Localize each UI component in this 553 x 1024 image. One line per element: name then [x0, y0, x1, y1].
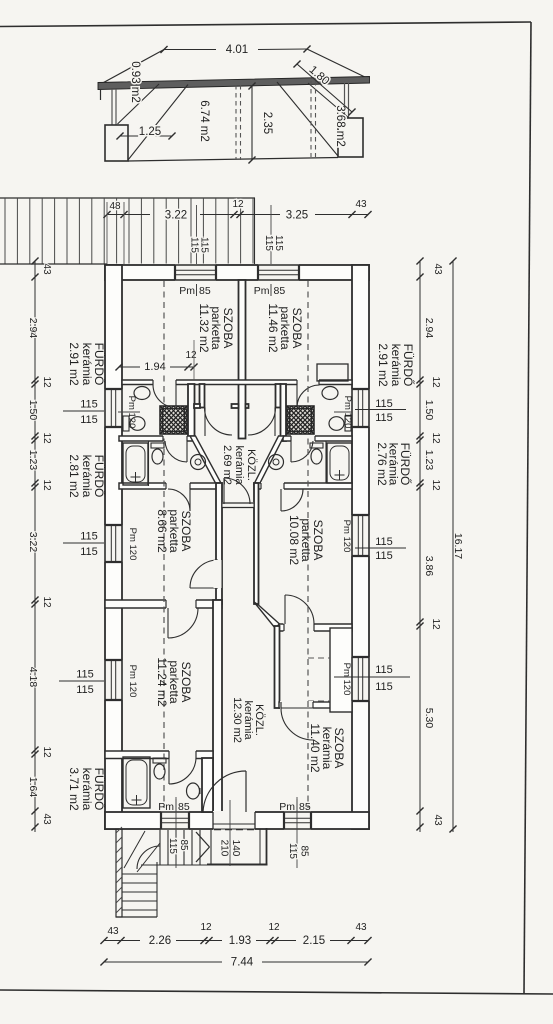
window top wall right Pm85 [258, 264, 299, 281]
svg-text:12: 12 [41, 432, 52, 444]
svg-text:12: 12 [41, 746, 52, 758]
svg-text:6.74 m2: 6.74 m2 [198, 100, 210, 142]
svg-text:11.32 m2: 11.32 m2 [197, 303, 211, 352]
svg-text:85: 85 [178, 839, 189, 851]
right chain2 16.17 line x453 [452, 261, 454, 832]
svg-text:3.86: 3.86 [423, 556, 435, 577]
svg-text:1.23: 1.23 [27, 450, 39, 471]
door arc bath 2.81 L [186, 441, 188, 462]
svg-text:43: 43 [355, 922, 367, 933]
svg-text:Pm 120: Pm 120 [341, 663, 352, 696]
svg-text:kerámia: kerámia [80, 343, 94, 386]
upper terrace band right end line [254, 198, 256, 264]
svg-text:Pm: Pm [179, 285, 195, 297]
svg-text:115: 115 [375, 536, 393, 548]
svg-text:115: 115 [76, 684, 94, 696]
dashed shaft left pair [235, 85, 237, 160]
roof slab (dark bar) [98, 77, 370, 90]
svg-text:115: 115 [167, 838, 178, 854]
svg-text:43: 43 [432, 814, 443, 826]
top chain extension line x107 [106, 202, 108, 264]
svg-text:4.18: 4.18 [27, 667, 39, 688]
entry landing bottom edge [207, 864, 268, 866]
corridor throat right wall [254, 483, 259, 604]
svg-text:1.50: 1.50 [27, 400, 39, 421]
page top border line [0, 22, 531, 27]
section dashed line left x164 [163, 281, 165, 808]
svg-text:11.46 m2: 11.46 m2 [266, 303, 280, 352]
door gap hall wall x213 [214, 560, 222, 588]
stair direction arrow [196, 832, 210, 847]
chamfer wall corridor to hall [254, 602, 280, 628]
svg-text:115: 115 [375, 550, 393, 562]
room 8.66 / room 11.24 divider wall y600 [105, 600, 222, 608]
partition line bath 2.81 L [148, 441, 150, 486]
svg-text:43: 43 [41, 263, 52, 275]
shower tray bath R [287, 406, 314, 434]
svg-text:12: 12 [232, 199, 244, 210]
window bottom wall left Pm85 [161, 811, 189, 830]
svg-text:kerámia: kerámia [233, 445, 245, 485]
svg-text:Pm 120: Pm 120 [127, 665, 138, 698]
svg-text:2.26: 2.26 [149, 935, 171, 947]
upper terrace bottom line left of building [0, 263, 107, 265]
svg-text:12: 12 [41, 479, 52, 491]
svg-text:8.66 m2: 8.66 m2 [155, 509, 169, 553]
door arc bath 2.91 L [153, 385, 176, 408]
window left wall room 8.66 [104, 525, 123, 562]
door arc bath 2.91 R [297, 385, 320, 408]
radiator rect bedroom R [317, 364, 348, 381]
window leader into bath R [334, 411, 352, 413]
door arc left strip [204, 408, 206, 437]
stair winder arc [137, 846, 160, 869]
svg-text:5.30: 5.30 [423, 708, 435, 729]
left strip duct [200, 384, 205, 408]
middle spine wall between bedrooms [239, 280, 246, 439]
svg-text:115: 115 [189, 237, 200, 253]
stair upper flight treads [159, 830, 161, 865]
partition line bath 2.76 R [325, 441, 327, 483]
bottom total dim 7.44 line [104, 961, 222, 963]
svg-text:1.64: 1.64 [27, 777, 39, 798]
svg-text:3.68 m2: 3.68 m2 [334, 105, 346, 147]
svg-text:3.71 m2: 3.71 m2 [67, 767, 81, 811]
svg-text:12: 12 [430, 618, 441, 630]
funnel circle right [269, 455, 284, 470]
stair left cheek wall [116, 829, 122, 917]
door arc room 10.08 bottom [284, 595, 286, 624]
window right wall bath 2.91R [351, 389, 370, 427]
outer wall bottom [105, 812, 369, 829]
svg-text:1.50: 1.50 [423, 400, 435, 421]
right pillar [338, 118, 363, 157]
page bottom border line [0, 990, 553, 994]
door gap bedroomR-bath [297, 379, 319, 386]
window left wall bath 2.91 [104, 389, 123, 427]
svg-text:210: 210 [219, 840, 230, 857]
bathtub bath 3.71 [123, 757, 150, 808]
door gap corridor throat [223, 502, 254, 508]
svg-text:12: 12 [200, 922, 212, 933]
svg-text:2.76 m2: 2.76 m2 [375, 442, 389, 486]
svg-text:2.81 m2: 2.81 m2 [67, 454, 81, 498]
room 10.08 top wall y483 [254, 483, 352, 489]
svg-text:4.01: 4.01 [226, 44, 248, 56]
svg-text:12: 12 [430, 479, 441, 491]
left diagonal brace long [128, 85, 188, 161]
svg-text:kerámia: kerámia [80, 455, 94, 498]
svg-text:16.17: 16.17 [452, 533, 464, 559]
tick 4.01 left [160, 46, 167, 53]
left strip partition spine side piece [232, 404, 239, 408]
outer wall right [352, 265, 369, 829]
door arc room 8.66 entry [189, 489, 191, 511]
funnel circle left [191, 455, 206, 470]
door gap bedroomL-bath [153, 379, 176, 386]
window bottom wall right Pm85 [284, 811, 311, 830]
toilet bath 3.71 [153, 758, 166, 763]
dashed shaft right pair [310, 81, 312, 157]
svg-text:1.25: 1.25 [139, 126, 161, 138]
entry landing right wall line [259, 829, 261, 864]
stair lower flight treads [122, 873, 157, 875]
leader line window bottom left [175, 797, 177, 868]
svg-text:85: 85 [178, 801, 190, 813]
room 8.66 top wall y483 [119, 483, 222, 489]
door arc corridor throat door [224, 478, 250, 504]
wardrobe rect room 11.40 [330, 628, 352, 712]
stair winder diagonals [124, 831, 145, 868]
door arc bath 2.76 R [290, 441, 292, 462]
door gap room 8.66 [166, 482, 190, 490]
funnel left diagonal wall [190, 436, 222, 484]
svg-text:3.25: 3.25 [286, 210, 308, 222]
room 10.08 bottom wall y624 [279, 624, 352, 631]
door gap room 11.24 [166, 599, 196, 609]
svg-text:115: 115 [375, 398, 393, 410]
door gap bath 3.71 [169, 750, 196, 760]
roof section bottom chord [128, 158, 338, 162]
outer wall top [105, 265, 369, 280]
top chain extension line x124 [123, 202, 125, 264]
sink bath 2.91 R [322, 387, 338, 400]
door gap bath2R [291, 435, 315, 442]
dim 2.35 vertical line [251, 86, 253, 160]
roof section: flat top / dim 4.01 line [164, 49, 216, 51]
svg-text:Pm 120: Pm 120 [126, 396, 137, 429]
svg-text:115: 115 [80, 531, 98, 543]
right bath left wall [281, 384, 287, 441]
svg-text:85: 85 [274, 285, 286, 297]
hall right wall x275 [275, 626, 280, 708]
sink bath 2.91 L [134, 387, 150, 400]
door arc room 11.24 entry [167, 608, 169, 638]
corridor throat left wall [216, 483, 222, 604]
svg-text:43: 43 [107, 926, 119, 937]
door arc right strip [274, 408, 276, 437]
svg-text:Pm 120: Pm 120 [341, 520, 352, 553]
window top wall left Pm85 [175, 264, 216, 281]
left dim chain vertical line [34, 261, 36, 832]
svg-text:3.22: 3.22 [165, 210, 187, 222]
funnel right diagonal wall [254, 436, 284, 484]
svg-text:Pm 120: Pm 120 [127, 528, 138, 561]
svg-text:85: 85 [299, 845, 310, 857]
svg-text:10.08 m2: 10.08 m2 [287, 515, 301, 565]
dashed bay line lower [308, 700, 330, 702]
entry threshold dashed line [214, 829, 256, 831]
bath 3.71 right wall [202, 758, 213, 812]
svg-text:115: 115 [375, 412, 393, 424]
bottom chain ticks [100, 937, 107, 944]
toilet bath 2.81 L [151, 443, 164, 448]
right post (double line) [344, 83, 346, 118]
svg-text:115: 115 [199, 237, 210, 253]
svg-text:1.93: 1.93 [229, 935, 251, 947]
right strip partition spine side piece [246, 404, 249, 408]
right diagonal brace short [308, 83, 349, 118]
door gap room 10.08 [261, 482, 284, 490]
dim 1.80 diagonal line [297, 64, 352, 112]
svg-text:3.22: 3.22 [27, 532, 39, 553]
svg-text:Pm: Pm [254, 285, 270, 297]
roof left slope [99, 50, 164, 86]
svg-text:12: 12 [430, 432, 441, 444]
svg-text:85: 85 [299, 801, 311, 813]
toilet bath 2.91 L (horizontal) [123, 416, 129, 431]
window leader right top [270, 205, 272, 281]
svg-text:kerámia: kerámia [389, 344, 403, 387]
page right border line [524, 22, 531, 993]
svg-text:11.24 m2: 11.24 m2 [155, 657, 169, 706]
window right wall room 11.40 [351, 657, 370, 701]
svg-text:1.23: 1.23 [423, 450, 435, 471]
svg-text:115: 115 [263, 235, 274, 251]
door arc room 11.40 entry [281, 707, 313, 709]
left post (double line) [111, 89, 113, 125]
svg-text:115: 115 [80, 546, 98, 558]
svg-text:KÖZL.: KÖZL. [245, 449, 257, 481]
tick 4.01 right [303, 45, 310, 52]
top chain ticks [103, 211, 110, 218]
svg-text:43: 43 [432, 263, 443, 275]
sink bath 3.71 [187, 783, 200, 799]
door arc bath 3.71 [168, 759, 170, 785]
window right wall room 10.08 [351, 515, 370, 556]
svg-text:Pm 120: Pm 120 [342, 396, 353, 429]
window leader left top [196, 205, 198, 281]
slab left fascia stub [100, 89, 102, 100]
svg-text:140: 140 [230, 840, 241, 857]
window left wall room 11.24 [104, 660, 123, 700]
door gap room 10.08 bottom [284, 623, 315, 632]
door gap room 11.40 [280, 701, 313, 709]
svg-text:2.69 m2: 2.69 m2 [221, 445, 233, 485]
dashed bay line upper [308, 657, 330, 659]
hall left wall x213 [213, 600, 222, 812]
svg-text:12: 12 [41, 596, 52, 608]
door arc room 8.66 wall door to hall [190, 587, 218, 589]
window leader into bath L [118, 411, 140, 413]
dim 1.94 room L [119, 366, 140, 368]
bedrooms bottom wall y380 [122, 380, 352, 385]
toilet bath 2.91 R (horizontal) [345, 416, 351, 431]
door gap bath2L [163, 435, 187, 442]
bottom dim chain line y940 [104, 940, 140, 942]
right chain1 ticks [416, 257, 423, 264]
right strip duct [276, 384, 281, 408]
roof right slope [307, 49, 369, 79]
svg-text:2.15: 2.15 [303, 935, 325, 947]
svg-text:2.91 m2: 2.91 m2 [67, 342, 81, 386]
svg-text:115: 115 [375, 664, 393, 676]
svg-text:115: 115 [273, 235, 284, 251]
right dim chain1 vertical line x420 [419, 261, 421, 832]
svg-text:2.94: 2.94 [27, 318, 39, 339]
svg-text:Pm: Pm [158, 801, 174, 813]
left chain ticks [31, 257, 38, 264]
svg-text:1.94: 1.94 [144, 361, 165, 373]
svg-text:115: 115 [375, 681, 393, 693]
svg-text:7.44: 7.44 [231, 957, 254, 969]
svg-text:115: 115 [80, 414, 98, 426]
svg-text:115: 115 [76, 669, 94, 681]
svg-text:2.91 m2: 2.91 m2 [376, 343, 390, 387]
svg-text:2.35: 2.35 [261, 112, 273, 134]
hall/room 11.40 top wall y702 [279, 702, 331, 708]
bathtub bath 2.76 R [327, 443, 352, 483]
entrance door arc [203, 771, 246, 812]
svg-text:0.93 m2: 0.93 m2 [129, 61, 141, 103]
entrance door opening 140/210 [213, 811, 255, 830]
top dim chain line y=214 [107, 214, 150, 216]
svg-text:43: 43 [41, 813, 52, 825]
dim 1.25 line [120, 135, 172, 137]
svg-text:12: 12 [268, 922, 280, 933]
shower tray bath L [160, 406, 187, 434]
right diagonal brace long [277, 82, 338, 156]
svg-text:kerámia: kerámia [80, 768, 94, 811]
room 11.24 bottom wall y751 [105, 751, 213, 759]
door arc room 10.08 entry [280, 489, 282, 511]
leader line entrance [229, 800, 231, 866]
section dashed line right x308 [307, 281, 309, 808]
bathtub bath 2.81 L [123, 443, 148, 485]
svg-text:12: 12 [185, 350, 197, 361]
svg-text:12: 12 [430, 376, 441, 388]
upper terrace hatch lines [4, 198, 6, 264]
svg-text:2.94: 2.94 [423, 318, 435, 339]
leader line window bottom right [296, 797, 298, 868]
left pillar [105, 125, 128, 161]
svg-text:43: 43 [355, 199, 367, 210]
svg-text:11.40 m2: 11.40 m2 [308, 723, 322, 772]
svg-text:12: 12 [41, 376, 52, 388]
svg-text:85: 85 [199, 285, 211, 297]
left bath right wall [188, 384, 195, 440]
toilet bath 2.76 R [310, 443, 323, 448]
left strip partition wall piece [194, 404, 200, 408]
svg-text:12.30 m2: 12.30 m2 [231, 697, 243, 743]
bath row divider wall right y436 [283, 436, 352, 441]
svg-text:115: 115 [287, 843, 298, 859]
svg-text:Pm: Pm [279, 801, 295, 813]
bath row divider wall left y436 [119, 436, 195, 441]
upper terrace band top line [0, 197, 255, 199]
svg-text:48: 48 [109, 201, 121, 212]
left diagonal brace short [118, 84, 160, 124]
outer wall left [105, 265, 122, 829]
svg-text:115: 115 [80, 399, 98, 411]
